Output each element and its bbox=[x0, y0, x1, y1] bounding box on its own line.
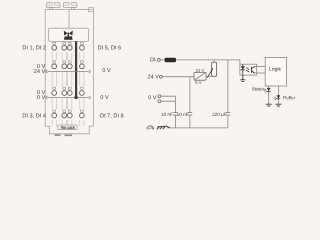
clamp contacts row 2 (0V / 24V) bbox=[52, 64, 84, 69]
label DI 7, DI 8 bbox=[100, 113, 123, 118]
earth electrode symbol bbox=[147, 126, 154, 130]
status branch wire bbox=[268, 86, 270, 104]
label Logik bbox=[269, 67, 281, 72]
clamp channels between rows bbox=[52, 52, 84, 126]
terminal 0V upper bbox=[158, 95, 161, 98]
label 220 uF bbox=[212, 113, 226, 117]
wire DI line to optocoupler bbox=[176, 60, 240, 64]
optocoupler LED bbox=[241, 64, 245, 75]
label DI 1, DI 2 bbox=[23, 45, 46, 50]
side latch top right bbox=[89, 8, 94, 12]
ground under optocoupler bbox=[240, 75, 245, 81]
module top latch tab right bbox=[64, 2, 78, 8]
channel col1 bbox=[52, 52, 56, 126]
label 0 V bbox=[148, 95, 156, 99]
capacitor C3 220uF plates bbox=[226, 113, 231, 116]
0V bus wire row 3 bbox=[46, 96, 90, 99]
LED Status bbox=[265, 88, 271, 93]
label 10 nF right bbox=[177, 113, 188, 116]
rail 24V filter capacitor bbox=[189, 77, 191, 128]
label 5 V below DCDC bbox=[195, 81, 201, 84]
clamp contacts row 1 (DI 1, DI 2 / DI 5, DI 6) bbox=[52, 45, 84, 50]
channel col3 bbox=[68, 52, 72, 126]
label 10 nF left bbox=[161, 113, 172, 116]
module bottom contour bbox=[45, 126, 93, 134]
terminal 24V bbox=[160, 75, 163, 78]
label DI 3, DI 4 bbox=[23, 113, 46, 118]
label 24 V row2 left bbox=[34, 69, 45, 73]
bottom feet bbox=[55, 134, 61, 136]
clamp contacts row 4 (DI 3, DI 4 / DI 7, DI 8) bbox=[52, 113, 84, 118]
label 24 V bbox=[148, 75, 159, 79]
capacitor C2 10nF plates bbox=[188, 113, 193, 116]
resistor R2 (field side) bbox=[212, 62, 217, 76]
wire DCDC to resistor bottom bbox=[206, 75, 214, 77]
junction dot jumper to 0V bus bbox=[74, 96, 77, 99]
marking box bbox=[49, 28, 89, 41]
clamp actuation slots row 3 bbox=[53, 87, 84, 89]
24V bus wire row 2 bbox=[46, 70, 90, 73]
wires 0V terminals join bbox=[161, 96, 176, 101]
LED Puffer bbox=[274, 95, 280, 100]
capacitor C1 10nF plates bbox=[173, 113, 178, 116]
module right edge bbox=[92, 10, 94, 127]
terminal DI bbox=[157, 58, 160, 61]
rail 0V bbox=[174, 96, 176, 128]
module top edge bbox=[45, 9, 93, 11]
wire opto emitter to Logik bbox=[254, 72, 265, 74]
wire opto collector to Logik bbox=[254, 65, 265, 67]
bottom bus wire bbox=[167, 127, 228, 129]
clamp contacts row 3 (0V) bbox=[52, 91, 84, 96]
latch stub left bbox=[50, 7, 53, 9]
input resistor R (filled) bbox=[165, 58, 176, 62]
ground under status branch bbox=[266, 104, 272, 106]
optocoupler phototransistor bbox=[251, 66, 254, 73]
rail to 220uF capacitor bbox=[227, 60, 229, 128]
clamp actuation slots row 1 bbox=[53, 42, 84, 44]
part number box bbox=[58, 125, 77, 130]
wire DI to input resistor bbox=[160, 59, 164, 61]
channel col2 bbox=[62, 52, 66, 126]
label 0 V row3 right bbox=[101, 95, 109, 99]
clamp actuation slots row 2 bbox=[53, 61, 84, 63]
label 0 V row3 left upper bbox=[37, 90, 45, 94]
DC/DC converter box bbox=[194, 72, 206, 80]
termination symbol in marking box bbox=[64, 31, 73, 40]
adjust arrow into R2 bbox=[207, 68, 213, 78]
terminal 0V lower bbox=[158, 100, 161, 103]
channel col4 bbox=[80, 52, 84, 126]
ground under buffer branch bbox=[275, 104, 281, 106]
clamp actuation slots row 4 bbox=[53, 110, 84, 112]
optocoupler light arrows bbox=[246, 67, 249, 72]
label Puffer bbox=[283, 96, 295, 99]
module top latch tab left bbox=[47, 2, 61, 8]
label 0 V row3 left lower bbox=[37, 95, 45, 99]
label Status bbox=[252, 87, 265, 90]
logic block Logik bbox=[265, 57, 286, 86]
stub resistor R2 to DI line bbox=[213, 60, 215, 62]
wire 24V to DCDC bbox=[163, 76, 195, 78]
module left edge bbox=[44, 10, 46, 127]
label 0 V row2 left bbox=[37, 64, 45, 68]
buffer branch wire bbox=[277, 86, 279, 104]
module center divider bbox=[68, 10, 70, 31]
internal 24V power jumper (thick) bbox=[75, 41, 77, 97]
latch stub right bbox=[72, 7, 75, 9]
label DI bbox=[151, 58, 156, 62]
label 24 V above DCDC bbox=[196, 69, 204, 72]
optocoupler U1 box bbox=[240, 64, 257, 75]
part number text bbox=[60, 127, 74, 129]
label DI 5, DI 6 bbox=[98, 45, 121, 50]
label 0 V row2 right bbox=[103, 68, 111, 72]
chassis ground symbol bbox=[157, 126, 170, 129]
